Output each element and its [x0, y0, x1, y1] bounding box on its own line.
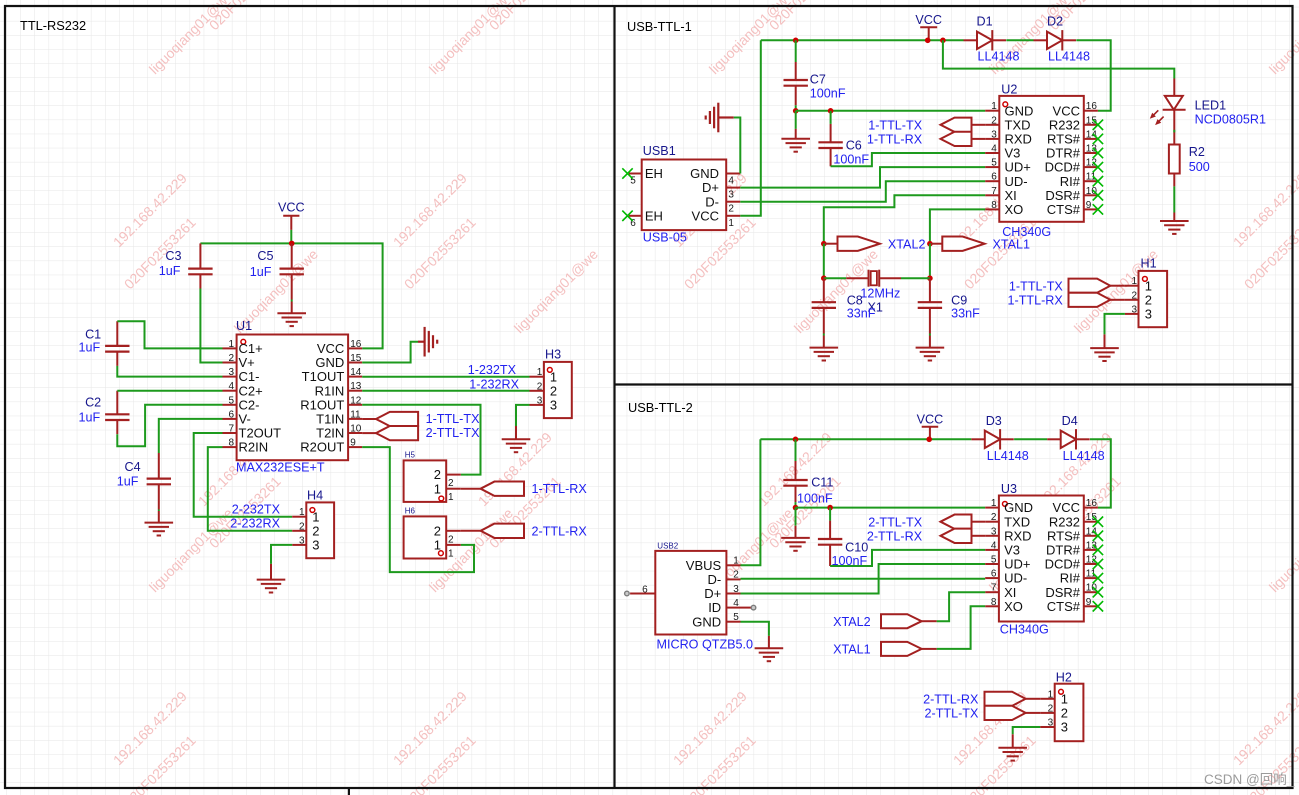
- svg-text:1: 1: [448, 548, 454, 559]
- connector USB2 MICRO QTZB5.0: [655, 542, 753, 652]
- wire T2OUT to H4.1: [194, 433, 293, 517]
- junction C7-GND: [793, 108, 799, 114]
- wire: [117, 390, 222, 392]
- svg-text:5: 5: [991, 158, 997, 169]
- net flag XTAL2: [824, 237, 926, 252]
- capacitor C1: [78, 321, 129, 366]
- ground (below C8): [810, 348, 839, 361]
- header H6: [404, 507, 461, 560]
- wire: [291, 300, 293, 302]
- wire: [290, 230, 292, 244]
- svg-text:R1OUT: R1OUT: [300, 397, 344, 412]
- capacitor C2: [78, 391, 129, 435]
- svg-text:TXD: TXD: [1004, 514, 1030, 529]
- svg-text:LL4148: LL4148: [1048, 50, 1090, 64]
- svg-text:3: 3: [550, 398, 557, 413]
- svg-text:1: 1: [312, 509, 319, 524]
- svg-text:LL4148: LL4148: [987, 449, 1029, 463]
- svg-text:XO: XO: [1004, 599, 1023, 614]
- no-connect X on U3 pin 14: [1093, 531, 1103, 541]
- wire H3.3 to ground: [516, 405, 530, 426]
- svg-text:16: 16: [350, 339, 362, 350]
- svg-text:1: 1: [1048, 689, 1054, 700]
- no-connect X on USB1 pin5: [622, 168, 632, 178]
- svg-text:3: 3: [228, 367, 234, 378]
- capacitor C7: [784, 62, 846, 105]
- wire V3 to C6: [831, 153, 986, 166]
- wire: [117, 321, 222, 348]
- svg-text:3: 3: [537, 395, 543, 406]
- svg-text:H5: H5: [405, 451, 416, 460]
- wire USB1 D+ to U2 UD+: [740, 167, 985, 188]
- wire D2 to U2 VCC: [1076, 40, 1110, 110]
- svg-text:2: 2: [991, 115, 997, 126]
- svg-text:VCC: VCC: [915, 13, 942, 27]
- op-amp U1 MAX232ESE+T: [223, 319, 363, 475]
- net flag 2-TTL-RX (H6.2): [461, 524, 588, 539]
- wire XTAL1 node down to crystal: [929, 244, 931, 279]
- svg-text:T2OUT: T2OUT: [239, 426, 282, 441]
- svg-text:1: 1: [537, 367, 543, 378]
- wire to LED branch: [943, 40, 1174, 78]
- svg-text:R232: R232: [1049, 514, 1080, 529]
- net flag arrow (H2.2): [985, 706, 1041, 720]
- ground (below R2): [1160, 221, 1189, 234]
- svg-text:H1: H1: [1141, 257, 1157, 271]
- svg-text:C6: C6: [846, 138, 862, 152]
- svg-text:CSDN @回响_: CSDN @回响_: [1204, 772, 1295, 787]
- svg-text:1-TTL-TX: 1-TTL-TX: [426, 412, 480, 426]
- junction XTAL2: [821, 241, 827, 247]
- svg-text:C1+: C1+: [239, 341, 263, 356]
- svg-text:14: 14: [1086, 129, 1098, 140]
- svg-text:3: 3: [1131, 304, 1137, 315]
- wire D3-D4: [1014, 438, 1047, 440]
- svg-text:U1: U1: [236, 319, 252, 333]
- svg-text:VCC: VCC: [692, 208, 719, 223]
- svg-text:2: 2: [434, 523, 441, 538]
- wire: [795, 111, 797, 129]
- diode D2: [1034, 15, 1091, 64]
- svg-text:C2: C2: [85, 396, 101, 410]
- svg-text:LL4148: LL4148: [978, 50, 1020, 64]
- ground (below C7): [781, 139, 810, 152]
- svg-text:10: 10: [1086, 583, 1098, 594]
- svg-text:DTR#: DTR#: [1046, 146, 1081, 161]
- svg-text:12: 12: [350, 395, 362, 406]
- IC U3 CH340G: [985, 482, 1098, 637]
- svg-text:13: 13: [1086, 144, 1098, 155]
- wire USB2 GND to ground: [741, 622, 769, 636]
- svg-text:2: 2: [1145, 292, 1152, 307]
- no-connect X on U3 pin 10: [1093, 587, 1103, 597]
- ground (U1 GND earth): [425, 327, 438, 357]
- svg-text:T2IN: T2IN: [316, 426, 344, 441]
- no-connect X on U2 pin 12: [1093, 162, 1103, 172]
- svg-text:2: 2: [728, 204, 734, 215]
- svg-text:C2+: C2+: [239, 383, 263, 398]
- wire XI to XTAL2 node: [824, 195, 985, 243]
- ground (below C5): [277, 313, 306, 326]
- svg-text:H6: H6: [405, 507, 416, 516]
- svg-text:C2-: C2-: [239, 397, 260, 412]
- net flag 2-TTL-TX (U1 T2IN): [362, 426, 480, 440]
- svg-text:XTAL1: XTAL1: [833, 643, 871, 657]
- svg-text:2-TTL-TX: 2-TTL-TX: [925, 707, 979, 721]
- svg-text:USB-TTL-1: USB-TTL-1: [627, 19, 692, 34]
- junction C11-GND: [793, 505, 799, 511]
- svg-text:RXD: RXD: [1004, 528, 1031, 543]
- svg-text:V3: V3: [1004, 543, 1020, 558]
- svg-text:GND: GND: [1005, 103, 1034, 118]
- svg-text:DSR#: DSR#: [1045, 188, 1080, 203]
- ground (below C9): [916, 348, 945, 361]
- svg-text:USB2: USB2: [657, 542, 678, 551]
- svg-text:8: 8: [991, 200, 997, 211]
- svg-text:2-TTL-TX: 2-TTL-TX: [868, 515, 922, 529]
- ground (below H4): [257, 580, 286, 593]
- svg-text:3: 3: [733, 584, 739, 595]
- svg-text:R2: R2: [1189, 145, 1205, 159]
- no-connect X on U2 pin 11: [1093, 176, 1103, 186]
- svg-text:XTAL1: XTAL1: [993, 238, 1031, 252]
- svg-text:GND: GND: [692, 614, 721, 629]
- junction XTAL1: [927, 241, 933, 247]
- svg-text:V+: V+: [239, 355, 255, 370]
- ground (below C4): [145, 523, 174, 536]
- svg-text:C1: C1: [85, 328, 101, 342]
- svg-text:2: 2: [312, 523, 319, 538]
- svg-text:1-TTL-RX: 1-TTL-RX: [1008, 293, 1064, 307]
- svg-text:2-TTL-RX: 2-TTL-RX: [532, 524, 588, 538]
- net flag 2-TTL-TX (U3 TXD): [868, 515, 985, 530]
- svg-text:R2IN: R2IN: [239, 440, 269, 455]
- svg-text:R2OUT: R2OUT: [300, 440, 344, 455]
- net flag XTAL1: [930, 237, 1030, 252]
- net flag XTAL1 (USB-TTL-2): [833, 642, 937, 657]
- svg-text:D2: D2: [1047, 15, 1063, 29]
- svg-text:12: 12: [1086, 555, 1098, 566]
- svg-text:15: 15: [1086, 115, 1098, 126]
- wire USB1 D- to U2 UD-: [740, 181, 985, 202]
- svg-text:2: 2: [448, 478, 454, 489]
- svg-text:D+: D+: [704, 586, 721, 601]
- svg-text:C9: C9: [951, 293, 967, 307]
- svg-text:NCD0805R1: NCD0805R1: [1195, 112, 1266, 126]
- wire R2OUT to H6.1: [362, 447, 474, 572]
- svg-text:1: 1: [299, 507, 305, 518]
- junction VCC tap 2: [926, 437, 932, 443]
- svg-text:12: 12: [1086, 158, 1098, 169]
- net flag 1-TTL-RX (H1.2): [1008, 293, 1125, 308]
- wire VCC rail (USB-TTL-2): [760, 438, 971, 440]
- header H3: [530, 348, 572, 419]
- svg-text:RI#: RI#: [1060, 174, 1081, 189]
- wire GND net to U2 pin1: [796, 110, 986, 112]
- svg-text:1: 1: [733, 556, 739, 567]
- wire VCC rail: [200, 243, 382, 348]
- wire: [795, 502, 797, 508]
- svg-text:VCC: VCC: [1053, 103, 1080, 118]
- capacitor C9: [918, 278, 980, 333]
- svg-text:2-TTL-TX: 2-TTL-TX: [426, 426, 480, 440]
- svg-text:14: 14: [350, 367, 362, 378]
- junction C10 tap: [827, 505, 833, 511]
- svg-text:V-: V-: [239, 412, 251, 427]
- svg-text:USB-05: USB-05: [643, 230, 687, 244]
- svg-text:D+: D+: [702, 180, 719, 195]
- svg-text:EH: EH: [645, 208, 663, 223]
- svg-text:CTS#: CTS#: [1047, 599, 1081, 614]
- wire V3 to C10: [830, 550, 985, 566]
- svg-text:2: 2: [537, 381, 543, 392]
- svg-text:USB1: USB1: [643, 144, 676, 158]
- svg-text:D1: D1: [977, 15, 993, 29]
- svg-text:1: 1: [434, 481, 441, 496]
- power flag VCC (USB-TTL-1): [915, 13, 942, 40]
- svg-text:9: 9: [1086, 597, 1092, 608]
- svg-text:6: 6: [991, 172, 997, 183]
- svg-text:1-TTL-RX: 1-TTL-RX: [867, 133, 923, 147]
- svg-text:1uF: 1uF: [78, 411, 100, 425]
- net flag 1-TTL-TX (U1 T1IN): [362, 412, 480, 426]
- wire U1 GND pin15: [362, 342, 418, 363]
- header H1: [1125, 257, 1167, 327]
- svg-text:11: 11: [350, 409, 361, 420]
- wire R1IN to H3.2: [362, 390, 529, 392]
- wire: [117, 366, 222, 377]
- svg-text:100nF: 100nF: [797, 492, 833, 506]
- junction VCC tap: [925, 38, 931, 44]
- svg-text:RTS#: RTS#: [1047, 528, 1081, 543]
- svg-text:D-: D-: [705, 194, 719, 209]
- svg-text:33nF: 33nF: [847, 307, 876, 321]
- USB2 pin 6 (shell): [625, 585, 656, 596]
- svg-text:2: 2: [228, 353, 234, 364]
- svg-text:1-TTL-TX: 1-TTL-TX: [1009, 279, 1063, 293]
- svg-text:U2: U2: [1001, 83, 1017, 97]
- svg-text:7: 7: [228, 424, 234, 435]
- no-connect X on U3 pin 13: [1093, 545, 1103, 555]
- svg-text:3: 3: [728, 190, 734, 201]
- junction VCC node: [289, 241, 295, 247]
- wire: [795, 508, 797, 526]
- svg-text:VBUS: VBUS: [686, 558, 722, 573]
- svg-text:MAX232ESE+T: MAX232ESE+T: [236, 461, 325, 475]
- svg-text:CH340G: CH340G: [1000, 623, 1049, 637]
- power flag VCC (USB-TTL-2): [917, 412, 944, 439]
- svg-text:V3: V3: [1005, 146, 1021, 161]
- ground (below H3): [502, 439, 531, 452]
- svg-text:2-232TX: 2-232TX: [232, 503, 281, 517]
- svg-text:2: 2: [1131, 290, 1137, 301]
- wire: [117, 405, 222, 447]
- svg-text:4: 4: [991, 144, 997, 155]
- diode D3: [971, 414, 1028, 463]
- junction C6 tap: [828, 108, 834, 114]
- svg-text:16: 16: [1086, 498, 1098, 509]
- net flag arrow (H2.1): [985, 692, 1041, 706]
- svg-text:2: 2: [1048, 703, 1054, 714]
- no-connect X on U3 pin 12: [1093, 559, 1103, 569]
- svg-text:1: 1: [1145, 278, 1152, 293]
- svg-text:2-TTL-RX: 2-TTL-RX: [923, 692, 979, 706]
- svg-text:1-232TX: 1-232TX: [468, 363, 517, 377]
- svg-text:3: 3: [1048, 718, 1054, 729]
- header H4: [292, 489, 334, 559]
- wire crystal left: [824, 277, 847, 279]
- svg-text:TTL-RS232: TTL-RS232: [20, 18, 86, 33]
- svg-text:XI: XI: [1005, 188, 1017, 203]
- ground (below H1): [1090, 348, 1119, 361]
- svg-text:UD+: UD+: [1005, 160, 1031, 175]
- svg-text:6: 6: [228, 409, 234, 420]
- svg-text:RI#: RI#: [1060, 571, 1081, 586]
- IC U2 CH340G: [985, 83, 1098, 240]
- wire XTAL1 to U3 XO: [937, 606, 986, 649]
- svg-text:T1OUT: T1OUT: [302, 369, 345, 384]
- junction C7 tap: [793, 38, 799, 44]
- svg-text:3: 3: [1145, 307, 1152, 322]
- svg-text:LED1: LED1: [1195, 99, 1227, 113]
- svg-text:1: 1: [991, 498, 997, 509]
- wire USB1 VCC up to rail: [740, 40, 761, 216]
- svg-text:14: 14: [1086, 526, 1098, 537]
- net flag XTAL2 (USB-TTL-2): [833, 614, 937, 629]
- svg-text:2: 2: [550, 383, 557, 398]
- svg-text:1: 1: [550, 369, 557, 384]
- net flag 1-TTL-RX (H5.1): [461, 482, 588, 497]
- svg-text:C8: C8: [847, 293, 863, 307]
- wire: [200, 289, 222, 363]
- crystal X1 12MHz: [846, 270, 901, 315]
- svg-text:3: 3: [991, 129, 997, 140]
- svg-text:2: 2: [1061, 706, 1068, 721]
- connector USB1 USB-05: [629, 144, 740, 245]
- svg-text:MICRO QTZB5.0: MICRO QTZB5.0: [657, 637, 754, 651]
- svg-text:1: 1: [228, 339, 234, 350]
- wire H4.3 to ground: [271, 545, 292, 564]
- ground (below H2): [998, 748, 1027, 761]
- wire: [795, 40, 797, 62]
- svg-text:3: 3: [991, 526, 997, 537]
- net flag 1-TTL-TX (H1.1): [1009, 279, 1125, 294]
- wire D4 to U3 VCC: [1090, 439, 1111, 507]
- svg-text:33nF: 33nF: [951, 307, 980, 321]
- svg-text:1uF: 1uF: [117, 475, 139, 489]
- svg-text:T1IN: T1IN: [316, 412, 344, 427]
- svg-text:1: 1: [448, 492, 454, 503]
- no-connect X on U3 pin 11: [1093, 573, 1103, 583]
- svg-text:6: 6: [991, 569, 997, 580]
- svg-text:4: 4: [228, 381, 234, 392]
- svg-text:16: 16: [1086, 101, 1098, 112]
- svg-text:1uF: 1uF: [159, 264, 181, 278]
- wire crystal right: [901, 277, 930, 279]
- svg-text:C11: C11: [811, 476, 833, 490]
- svg-text:D-: D-: [707, 572, 721, 587]
- svg-text:TXD: TXD: [1005, 117, 1031, 132]
- svg-text:UD-: UD-: [1004, 571, 1027, 586]
- wire H2.3 to ground: [1013, 727, 1040, 734]
- wire USB1 GND to earth: [734, 118, 741, 174]
- wire USB2 D- to U3 UD-: [741, 578, 986, 580]
- no-connect X on U2 pin 14: [1093, 134, 1103, 144]
- svg-text:XTAL2: XTAL2: [888, 238, 926, 252]
- no-connect X on U2 pin 15: [1093, 120, 1103, 130]
- svg-text:2: 2: [733, 570, 739, 581]
- svg-text:XO: XO: [1005, 202, 1024, 217]
- svg-text:ID: ID: [708, 600, 721, 615]
- wire XO to XTAL1 node: [930, 209, 985, 243]
- svg-text:LL4148: LL4148: [1063, 449, 1105, 463]
- wire: [830, 111, 832, 124]
- capacitor C11: [783, 461, 833, 506]
- svg-text:1: 1: [1131, 276, 1137, 287]
- svg-text:CTS#: CTS#: [1047, 202, 1081, 217]
- svg-text:5: 5: [991, 555, 997, 566]
- wire: [1173, 186, 1175, 212]
- svg-text:H3: H3: [545, 348, 561, 362]
- svg-text:12MHz: 12MHz: [860, 287, 900, 301]
- capacitor C8: [812, 278, 876, 333]
- svg-text:UD-: UD-: [1005, 174, 1028, 189]
- svg-text:DCD#: DCD#: [1045, 557, 1081, 572]
- svg-text:DCD#: DCD#: [1045, 160, 1081, 175]
- svg-text:4: 4: [991, 540, 997, 551]
- capacitor C6: [818, 124, 869, 167]
- ground (below C11): [781, 538, 810, 551]
- wire: [929, 334, 931, 336]
- svg-text:5: 5: [228, 395, 234, 406]
- svg-text:1: 1: [991, 101, 997, 112]
- svg-text:VCC: VCC: [917, 412, 944, 426]
- no-connect X on U3 pin 15: [1093, 517, 1103, 527]
- svg-text:R1IN: R1IN: [315, 383, 345, 398]
- svg-text:R232: R232: [1049, 117, 1080, 132]
- svg-text:EH: EH: [645, 166, 663, 181]
- no-connect X on U2 pin 10: [1093, 190, 1103, 200]
- diode D4: [1047, 414, 1104, 463]
- wire: [158, 510, 160, 512]
- svg-text:U3: U3: [1001, 482, 1017, 496]
- ground (USB1 earth): [706, 103, 719, 133]
- diode D1: [964, 15, 1020, 64]
- wire H1.3 to ground: [1105, 314, 1125, 335]
- header H5: [404, 451, 461, 504]
- svg-text:VCC: VCC: [317, 341, 344, 356]
- svg-text:D3: D3: [986, 414, 1002, 428]
- wire: [159, 419, 223, 453]
- svg-text:C4: C4: [124, 460, 140, 474]
- svg-text:1-TTL-TX: 1-TTL-TX: [868, 118, 922, 132]
- svg-text:5: 5: [733, 612, 739, 623]
- svg-text:100nF: 100nF: [810, 86, 846, 100]
- svg-text:13: 13: [350, 381, 362, 392]
- wire: [795, 439, 797, 461]
- no-connect X on U3 pin 9: [1093, 601, 1103, 611]
- svg-text:2: 2: [299, 521, 305, 532]
- svg-text:XTAL2: XTAL2: [833, 615, 871, 629]
- svg-text:XI: XI: [1004, 585, 1016, 600]
- header H2: [1040, 670, 1083, 741]
- svg-text:4: 4: [728, 176, 734, 187]
- svg-text:10: 10: [1086, 186, 1098, 197]
- ground (below USB2): [755, 648, 784, 661]
- svg-text:2: 2: [991, 512, 997, 523]
- svg-text:USB-TTL-2: USB-TTL-2: [628, 400, 693, 415]
- wire R1OUT to H5.2: [362, 405, 480, 475]
